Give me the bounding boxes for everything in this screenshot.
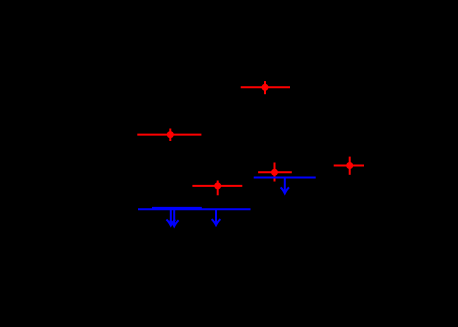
data point P2 x error bar xyxy=(137,134,201,136)
data point P4 y error bar xyxy=(274,163,276,182)
upper limit UL3 horizontal bar xyxy=(254,177,316,179)
data point P4 x error bar xyxy=(258,171,292,173)
upper limit arrow A3 shaft xyxy=(215,209,217,224)
data point P5 x error bar xyxy=(334,165,364,167)
upper limit arrow A1 head xyxy=(166,220,175,226)
data point P3 marker xyxy=(214,182,221,189)
upper limit arrow A4 head xyxy=(281,187,289,193)
data point P5 marker xyxy=(346,162,353,169)
upper limit arrow A1 shaft xyxy=(170,209,172,224)
upper limit arrow A4 shaft xyxy=(284,178,286,192)
data point P1 x error bar xyxy=(241,86,290,88)
data point P5 y error bar xyxy=(349,157,351,175)
data point P1 marker xyxy=(262,84,269,91)
data point P1 y error bar xyxy=(264,81,266,94)
upper limit UL1 horizontal bar (long) xyxy=(138,208,251,210)
data point P4 marker xyxy=(271,169,278,176)
data point P3 y error bar xyxy=(217,181,219,196)
upper limit arrow A2 shaft xyxy=(173,209,175,225)
data point P2 marker xyxy=(167,131,174,138)
upper limit arrow A3 head xyxy=(212,219,221,225)
upper limit arrow A2 head xyxy=(170,220,179,226)
data point P2 y error bar xyxy=(169,129,171,142)
data point P3 x error bar xyxy=(192,185,242,187)
upper limit UL2 horizontal bar (short, overlapping) xyxy=(152,207,202,209)
